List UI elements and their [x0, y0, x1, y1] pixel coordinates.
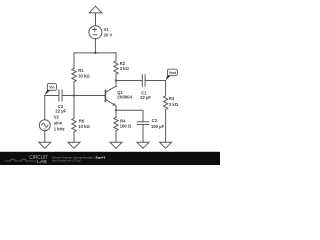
- label R2 3 k: [120, 61, 130, 71]
- wire emitter lead: [115, 106, 117, 111]
- wire collector lead: [115, 81, 117, 87]
- label V1 20 V: [104, 27, 113, 37]
- svg-text:100 µF: 100 µF: [151, 124, 165, 129]
- wire R6 drop: [73, 96, 75, 119]
- wire R4 to ground: [115, 131, 117, 142]
- svg-text:R4: R4: [120, 118, 126, 123]
- resistor R3: [164, 96, 168, 109]
- resistor R4: [114, 117, 118, 130]
- wire C2 to ground: [142, 125, 144, 143]
- wire top rail: [74, 52, 116, 54]
- label C1 22 uF: [140, 90, 151, 100]
- wire base: [62, 95, 105, 97]
- voltage source V1: [89, 26, 102, 39]
- junction rail/V1: [94, 52, 96, 54]
- ground (R6): [68, 142, 80, 148]
- svg-text:100 Ω: 100 Ω: [120, 124, 132, 129]
- label R6 10 k: [78, 119, 90, 129]
- svg-text:V2: V2: [54, 114, 60, 119]
- resistor R6: [72, 118, 76, 132]
- capacitor C2: [137, 122, 149, 125]
- wire rail to R1: [73, 53, 75, 68]
- wire collector node to C1: [116, 80, 142, 82]
- wire R2 to collector node: [115, 74, 117, 80]
- svg-text:R1: R1: [78, 68, 84, 73]
- wire C1 to Vout node: [145, 80, 166, 82]
- wire Vout node to R3: [165, 81, 167, 96]
- svg-text:R3: R3: [169, 96, 175, 101]
- watermark bar: [0, 152, 220, 165]
- svg-text:1 kHz: 1 kHz: [54, 126, 65, 131]
- svg-text:10 kΩ: 10 kΩ: [78, 124, 90, 129]
- source V2 sine: [39, 120, 50, 131]
- node Vout flag: [166, 69, 178, 80]
- label R4 100 Ohm: [120, 118, 132, 128]
- wire corner to V2: [44, 96, 46, 120]
- label C3 22 uF: [55, 104, 66, 114]
- svg-text:3 kΩ: 3 kΩ: [120, 66, 130, 71]
- ground (V2): [39, 142, 51, 148]
- resistor R2: [114, 61, 118, 74]
- ground (C2): [137, 142, 149, 148]
- label R1 33 k: [78, 68, 90, 78]
- svg-text:C2: C2: [152, 118, 158, 123]
- svg-text:20 V: 20 V: [104, 32, 113, 37]
- power arrow V+: [89, 6, 102, 26]
- svg-text:22 µF: 22 µF: [140, 95, 151, 100]
- wire R6 to ground: [73, 132, 75, 142]
- label V2 sine 1 kHz: [54, 114, 65, 131]
- svg-text:LAB: LAB: [37, 159, 47, 164]
- transistor Q1: [105, 86, 116, 106]
- svg-text:2N3904: 2N3904: [117, 95, 132, 100]
- capacitor C1: [142, 74, 145, 86]
- wire rail to R2: [115, 53, 117, 61]
- wire R3 to ground: [165, 109, 167, 142]
- svg-text:22 µF: 22 µF: [55, 109, 66, 114]
- svg-text:3 kΩ: 3 kΩ: [169, 102, 179, 107]
- label Q1 2N3904: [117, 90, 132, 100]
- ground (R3): [160, 142, 172, 148]
- svg-text:R6: R6: [79, 119, 85, 124]
- svg-text:http://circuitlab.com/c/37uba7: http://circuitlab.com/c/37uba7: [52, 160, 82, 163]
- wire R1 to base node: [73, 82, 75, 96]
- node Vin flag: [44, 83, 56, 95]
- svg-text:sine: sine: [54, 120, 63, 125]
- capacitor C3: [59, 89, 62, 101]
- wire V2 corner to C3: [45, 95, 59, 97]
- label C2 100 uF: [151, 118, 165, 129]
- ground (R4): [110, 142, 122, 148]
- wire emitter node to C2: [116, 110, 143, 122]
- svg-text:Vout: Vout: [169, 71, 177, 75]
- svg-text:Vin: Vin: [49, 86, 54, 90]
- junction emitter node: [115, 109, 117, 111]
- junction collector node: [115, 79, 117, 81]
- junction base/R6 node: [73, 94, 75, 96]
- wire V1 to rail: [94, 39, 96, 53]
- wire emitter node to R4: [115, 110, 117, 117]
- svg-text:33 kΩ: 33 kΩ: [78, 73, 90, 78]
- wire V2 to ground: [44, 131, 46, 143]
- label R3 3 k: [169, 96, 179, 107]
- resistor R1: [72, 68, 76, 81]
